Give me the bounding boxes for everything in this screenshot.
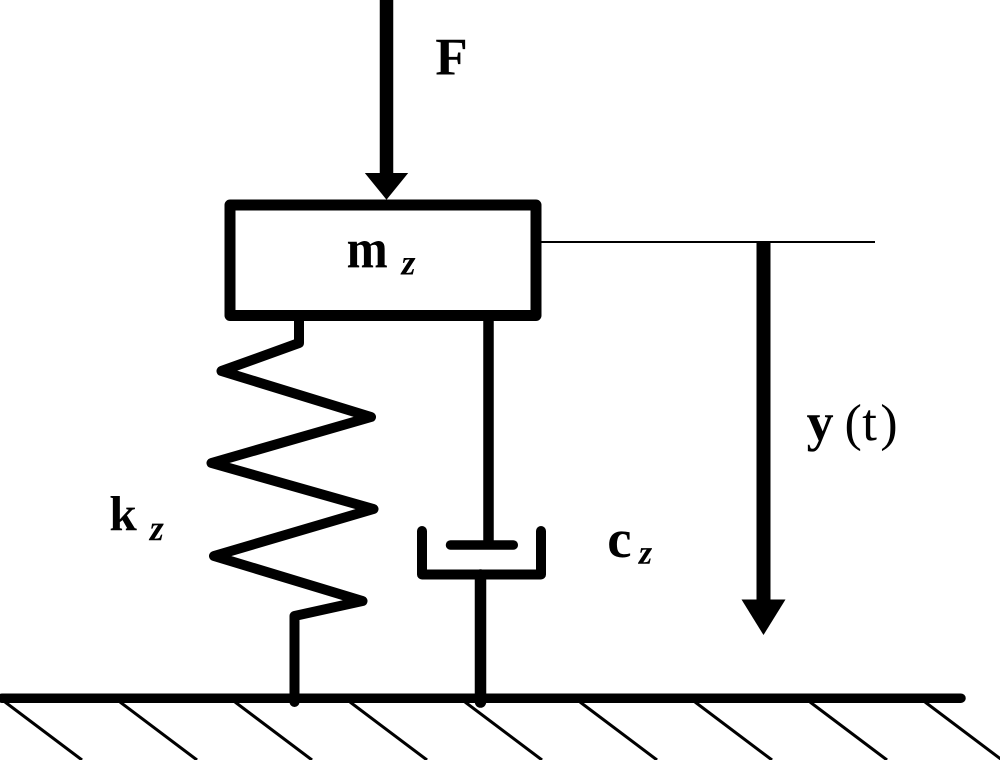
label close paren xyxy=(882,404,895,451)
label m subscript z xyxy=(400,258,415,275)
damper cup xyxy=(422,531,541,575)
reference line xyxy=(542,241,876,243)
force arrow F head xyxy=(365,173,408,200)
label c xyxy=(609,531,630,557)
label c subscript z xyxy=(638,548,652,564)
damper rod lower xyxy=(475,575,487,702)
force arrow F shaft xyxy=(380,0,394,174)
damper piston plate xyxy=(451,540,514,550)
damper rod upper xyxy=(483,312,494,545)
mass block m_z xyxy=(230,205,536,316)
ground line xyxy=(2,693,961,703)
spring k_z xyxy=(212,312,374,702)
label open paren xyxy=(847,404,860,451)
label k subscript z xyxy=(149,524,164,541)
label k xyxy=(111,496,137,530)
label t xyxy=(863,410,877,440)
displacement arrow y(t) shaft xyxy=(757,243,771,601)
displacement arrow y(t) head xyxy=(742,600,786,636)
ground hatching xyxy=(5,702,1000,760)
label F xyxy=(436,40,465,75)
label m xyxy=(348,241,387,267)
label y xyxy=(807,415,833,451)
